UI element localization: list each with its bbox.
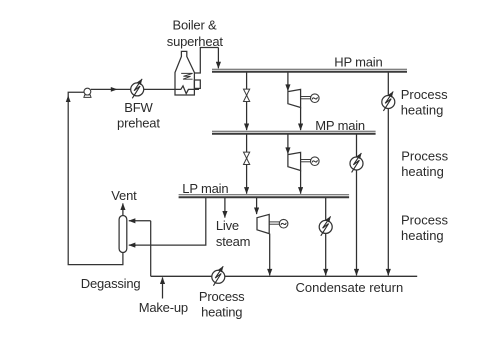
svg-text:preheat: preheat [117,115,160,130]
svg-text:Degassing: Degassing [81,276,141,291]
svg-text:BFW: BFW [124,100,153,115]
svg-text:steam: steam [216,234,250,249]
svg-text:MP main: MP main [315,118,365,133]
svg-text:heating: heating [401,164,444,179]
svg-text:Boiler &: Boiler & [173,18,217,33]
svg-text:Live: Live [216,218,239,233]
svg-text:heating: heating [201,304,242,319]
svg-text:heating: heating [401,228,444,243]
svg-text:Process: Process [401,149,448,164]
svg-text:Process: Process [199,289,245,304]
svg-text:superheat: superheat [167,34,224,49]
svg-text:LP main: LP main [182,181,228,196]
svg-text:Condensate return: Condensate return [296,280,404,295]
svg-text:Process: Process [401,87,448,102]
svg-text:Process: Process [401,212,448,227]
svg-text:HP main: HP main [334,55,382,70]
svg-text:heating: heating [401,102,444,117]
svg-text:Make-up: Make-up [139,300,188,315]
svg-text:Vent: Vent [111,188,137,203]
